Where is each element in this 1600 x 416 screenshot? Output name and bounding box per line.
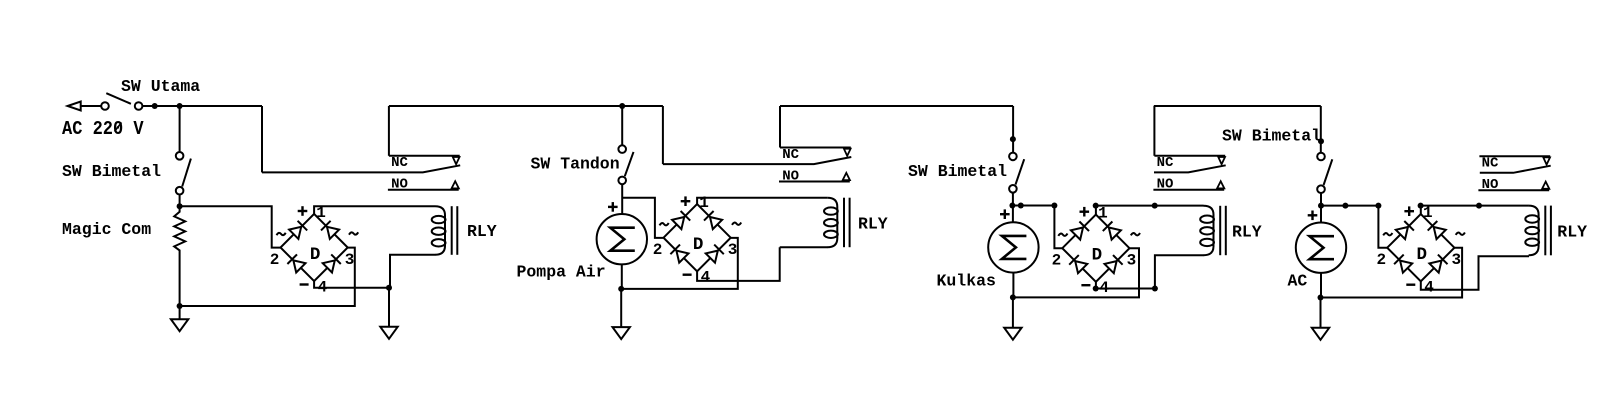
bridge rectifier D (D1) diamond (281, 214, 348, 281)
junction dot on relay 4 coil feed (1476, 203, 1482, 209)
relay RLY4 NO contact triangle (1542, 182, 1549, 189)
wire top rail C (780, 105, 1013, 107)
relay RLY1 NC contact triangle (453, 157, 460, 164)
label + of D3 (1080, 210, 1090, 212)
svg-text:NC: NC (782, 147, 799, 163)
wire SW Tandon upper lead (621, 106, 623, 145)
relay RLY1 NC contact line (389, 155, 460, 157)
ground below AC motor (1320, 298, 1322, 328)
label ~ right of D4 (1456, 233, 1465, 235)
svg-text:AC: AC (1288, 272, 1308, 291)
label ~ left of D2 (660, 223, 669, 225)
svg-text:NO: NO (1157, 177, 1174, 193)
wire bridge 2 pin 1 to relay 2 coil (697, 198, 827, 205)
label + of Pompa Air (608, 206, 618, 208)
diode D2 bottom-right (4 to 3) (706, 251, 718, 263)
svg-text:3: 3 (728, 241, 738, 259)
node Kulkas top junction (1009, 203, 1015, 209)
relay RLY3 NC contact line (1154, 155, 1225, 157)
relay RLY2 core (843, 198, 845, 248)
bridge rectifier D (D4) diamond (1387, 214, 1454, 281)
node rail B to SW Tandon junction (619, 103, 625, 109)
node DC return junction stage 3 (1152, 286, 1158, 292)
svg-text:SW Bimetal: SW Bimetal (1222, 127, 1321, 146)
wire relay 1 coil return (390, 255, 435, 288)
relay coil RLY1 (435, 206, 445, 255)
diode D3 bottom-left (4 to 2) (1075, 261, 1087, 273)
diode D2 bottom-left (4 to 2) (676, 251, 688, 263)
wire rail D down to SW Bimetal 3 (1320, 106, 1322, 153)
label AC 220 V (62, 118, 144, 140)
wire relay 2 coil return (780, 246, 828, 248)
diode D1 bottom-left (4 to 2) (293, 260, 305, 272)
svg-text:RLY: RLY (467, 222, 497, 241)
wire Pompa Air bottom lead (621, 264, 623, 289)
label ~ left of D3 (1058, 234, 1067, 236)
svg-text:RLY: RLY (1557, 223, 1587, 242)
svg-text:2: 2 (1052, 252, 1062, 270)
bridge rectifier D (D3) diamond (1062, 215, 1129, 282)
node AC motor top junction (1318, 203, 1324, 209)
svg-text:NO: NO (782, 168, 799, 184)
wire SW Bimetal 1 to Magic Com node (179, 195, 181, 207)
svg-text:3: 3 (1451, 251, 1461, 269)
relay coil RLY4 (1529, 206, 1539, 256)
label ~ right of D2 (732, 223, 741, 225)
wire SW Bimetal 3 to AC motor (1320, 193, 1322, 223)
node bridge 4 pin 1 dot (1418, 203, 1424, 209)
svg-text:NO: NO (1482, 177, 1499, 193)
svg-text:SW Bimetal: SW Bimetal (908, 162, 1007, 181)
relay RLY1 NO contact line (388, 189, 459, 191)
svg-text:3: 3 (345, 251, 355, 269)
wire Kulkas bottom lead (1012, 273, 1014, 298)
switch SW Utama right contact (135, 102, 143, 110)
label + of AC motor (1308, 214, 1318, 216)
relay coil RLY3 (1204, 206, 1214, 255)
wire bridge 1 pin 4 to DC return (314, 281, 389, 288)
wire bridge 4 pin 4 to coil return (1421, 256, 1529, 290)
wire Magic Com bottom to bridge 1 pin 3 (180, 248, 355, 306)
ground below Pompa Air (620, 289, 622, 327)
node AC motor bottom junction (1318, 295, 1324, 301)
node bridge 3 pin 1 dot (1093, 203, 1099, 209)
junction dot beside AC node (1342, 203, 1348, 209)
junction dot below rail D (1318, 138, 1324, 144)
wire RLY1 NC to top rail (388, 106, 390, 156)
relay RLY3 core (1219, 206, 1221, 255)
node junction rail A to SW Bimetal branch (177, 103, 183, 109)
relay RLY4 NC contact line (1479, 155, 1550, 157)
bridge rectifier D (D2) diamond (664, 204, 731, 271)
svg-text:2: 2 (653, 241, 663, 259)
diode D2 top-right (1 to 3) (710, 217, 722, 229)
wire top rail B (389, 105, 663, 107)
label + of Kulkas (1000, 213, 1010, 215)
diode D2 top-left (2 to 1) (672, 217, 684, 229)
node DC return junction stage 1 (386, 285, 392, 291)
svg-text:D: D (310, 245, 321, 265)
wire rail B down to relay 2 arm (662, 106, 664, 164)
svg-text:4: 4 (701, 269, 711, 287)
svg-text:RLY: RLY (1232, 223, 1262, 242)
ground below relay 1 coil return (388, 288, 390, 327)
svg-text:RLY: RLY (858, 215, 888, 234)
relay RLY1 core (451, 206, 453, 255)
relay RLY1 common arm (262, 165, 460, 172)
diode D3 bottom-right (4 to 3) (1105, 261, 1117, 273)
diode D4 bottom-right (4 to 3) (1429, 261, 1441, 273)
wire SW Tandon to Pompa Air motor (621, 184, 623, 214)
relay RLY4 core (1544, 206, 1546, 256)
relay RLY3 NO contact line (1153, 189, 1224, 191)
node Pompa Air bottom junction (618, 286, 624, 292)
wire rail A down to relay 1 arm (261, 106, 263, 172)
wire bridge 4 pin 1 to relay 4 coil (1421, 206, 1529, 215)
motor AC (1296, 223, 1346, 273)
wire Pompa Air node to bridge 2 pin 2 (622, 198, 663, 238)
svg-text:4: 4 (1424, 279, 1434, 297)
wire relay 3 coil return (1155, 255, 1204, 288)
label + of D2 (681, 200, 691, 202)
node Kulkas bottom junction (1010, 294, 1016, 300)
svg-text:SW Bimetal: SW Bimetal (62, 162, 161, 181)
label - of D1 (300, 283, 309, 285)
relay RLY1 NO contact triangle (452, 181, 459, 188)
diode D4 bottom-left (4 to 2) (1400, 261, 1412, 273)
label ~ right of D1 (349, 232, 358, 234)
junction dot beside Kulkas node (1018, 203, 1024, 209)
relay RLY4 NO contact line (1478, 189, 1549, 191)
svg-text:Pompa Air: Pompa Air (517, 263, 606, 282)
relay coil RLY2 (827, 198, 837, 248)
node corner dot to bridge 4 pin 2 (1375, 203, 1381, 209)
wire top rail D (1154, 105, 1321, 107)
junction dot on rail A (152, 103, 158, 109)
ground below Kulkas (1012, 297, 1014, 327)
svg-text:3: 3 (1127, 252, 1137, 270)
junction dot below rail C (1010, 136, 1016, 142)
node Magic Com top junction (177, 203, 183, 209)
diode D1 top-right (1 to 3) (327, 227, 339, 239)
switch SW Bimetal 1 (176, 152, 184, 160)
svg-text:AC 220 V: AC 220 V (62, 118, 144, 140)
wire top rail A from SW Utama (142, 105, 262, 107)
wire rail C down to SW Bimetal 2 (1012, 106, 1014, 153)
wire AC motor bottom lead (1320, 273, 1322, 298)
label ~ left of D1 (277, 233, 286, 235)
svg-text:1: 1 (1423, 204, 1433, 222)
switch SW Bimetal 2 (1009, 153, 1017, 161)
relay RLY4 NC contact triangle (1543, 157, 1550, 164)
svg-text:1: 1 (1098, 205, 1108, 223)
label + of D4 (1404, 210, 1414, 212)
wire Kulkas bottom to bridge 3 pin 3 (1013, 248, 1139, 297)
switch SW Utama arm (106, 93, 131, 104)
label - of D4 (1406, 284, 1415, 286)
svg-text:SW Utama: SW Utama (121, 77, 200, 96)
wire Magic Com top to bridge 1 pin 2 (180, 206, 281, 247)
svg-text:D: D (1417, 245, 1428, 265)
svg-text:D: D (693, 235, 704, 255)
wire AC input lead (81, 105, 102, 107)
svg-text:NO: NO (391, 177, 408, 193)
wire Kulkas node to bridge 3 pin 2 (1013, 206, 1063, 249)
resistor Magic Com heater (174, 206, 185, 306)
svg-text:NC: NC (391, 155, 408, 171)
wire bridge 3 pin 4 to DC return (1096, 282, 1155, 289)
relay RLY3 NO contact triangle (1217, 181, 1224, 188)
svg-text:2: 2 (1376, 251, 1386, 269)
diode D3 top-right (1 to 3) (1109, 228, 1121, 240)
diode D1 bottom-right (4 to 3) (323, 260, 335, 272)
ground below Magic Com (179, 306, 181, 319)
wire bridge 3 pin 1 to relay 3 coil (1096, 206, 1204, 215)
wire AC bottom to bridge 4 pin 3 (1321, 248, 1463, 298)
relay RLY2 NC contact triangle (844, 149, 851, 156)
relay RLY2 NC contact line (780, 147, 851, 149)
wire Pompa Air bottom to bridge 2 pin 3 (621, 238, 738, 289)
wire RLY3 NC to top rail (1153, 106, 1155, 156)
label - of D3 (1081, 284, 1090, 286)
switch SW Bimetal 3 (1317, 153, 1325, 161)
diode D3 top-left (2 to 1) (1071, 228, 1083, 240)
relay RLY3 common arm (1154, 165, 1226, 172)
wire RLY2 NC to top rail (779, 106, 781, 148)
svg-text:D: D (1092, 246, 1103, 266)
terminal arrow AC 220 V input (68, 102, 81, 111)
relay RLY2 NO contact line (779, 181, 850, 183)
label ~ right of D3 (1131, 233, 1140, 235)
switch SW Utama left contact (101, 102, 109, 110)
relay RLY4 common arm (1480, 166, 1551, 173)
node corner dot to bridge 3 pin 2 (1051, 203, 1057, 209)
svg-text:2: 2 (270, 251, 280, 269)
svg-text:NC: NC (1482, 156, 1499, 172)
node Magic Com bottom junction (177, 303, 183, 309)
wire bridge 1 pin 1 to relay 1 coil (314, 206, 435, 214)
label ~ left of D4 (1383, 233, 1392, 235)
svg-text:SW Tandon: SW Tandon (531, 155, 620, 174)
wire SW Bimetal 1 upper lead (179, 106, 181, 152)
relay RLY3 NC contact triangle (1218, 157, 1225, 164)
wire SW Bimetal 2 to Kulkas motor (1012, 193, 1014, 223)
motor Kulkas (988, 222, 1038, 272)
relay RLY2 NO contact triangle (843, 173, 850, 180)
svg-text:Magic Com: Magic Com (62, 220, 151, 239)
diode D1 top-left (2 to 1) (289, 227, 301, 239)
node bridge 3 pin 4 dot (1093, 286, 1099, 292)
wire bridge 2 pin 4 to coil return (697, 247, 780, 281)
svg-text:NC: NC (1157, 155, 1174, 171)
switch SW Tandon (618, 145, 626, 153)
diode D4 top-right (1 to 3) (1434, 227, 1446, 239)
motor Pompa Air (597, 214, 647, 264)
relay RLY2 common arm (663, 157, 851, 164)
svg-text:Kulkas: Kulkas (937, 272, 996, 291)
wire AC node to bridge 4 pin 2 (1321, 206, 1387, 248)
label + of D1 (298, 210, 308, 212)
diode D4 top-left (2 to 1) (1396, 227, 1408, 239)
label - of D2 (683, 274, 692, 276)
junction dot on relay 3 coil feed (1152, 203, 1158, 209)
